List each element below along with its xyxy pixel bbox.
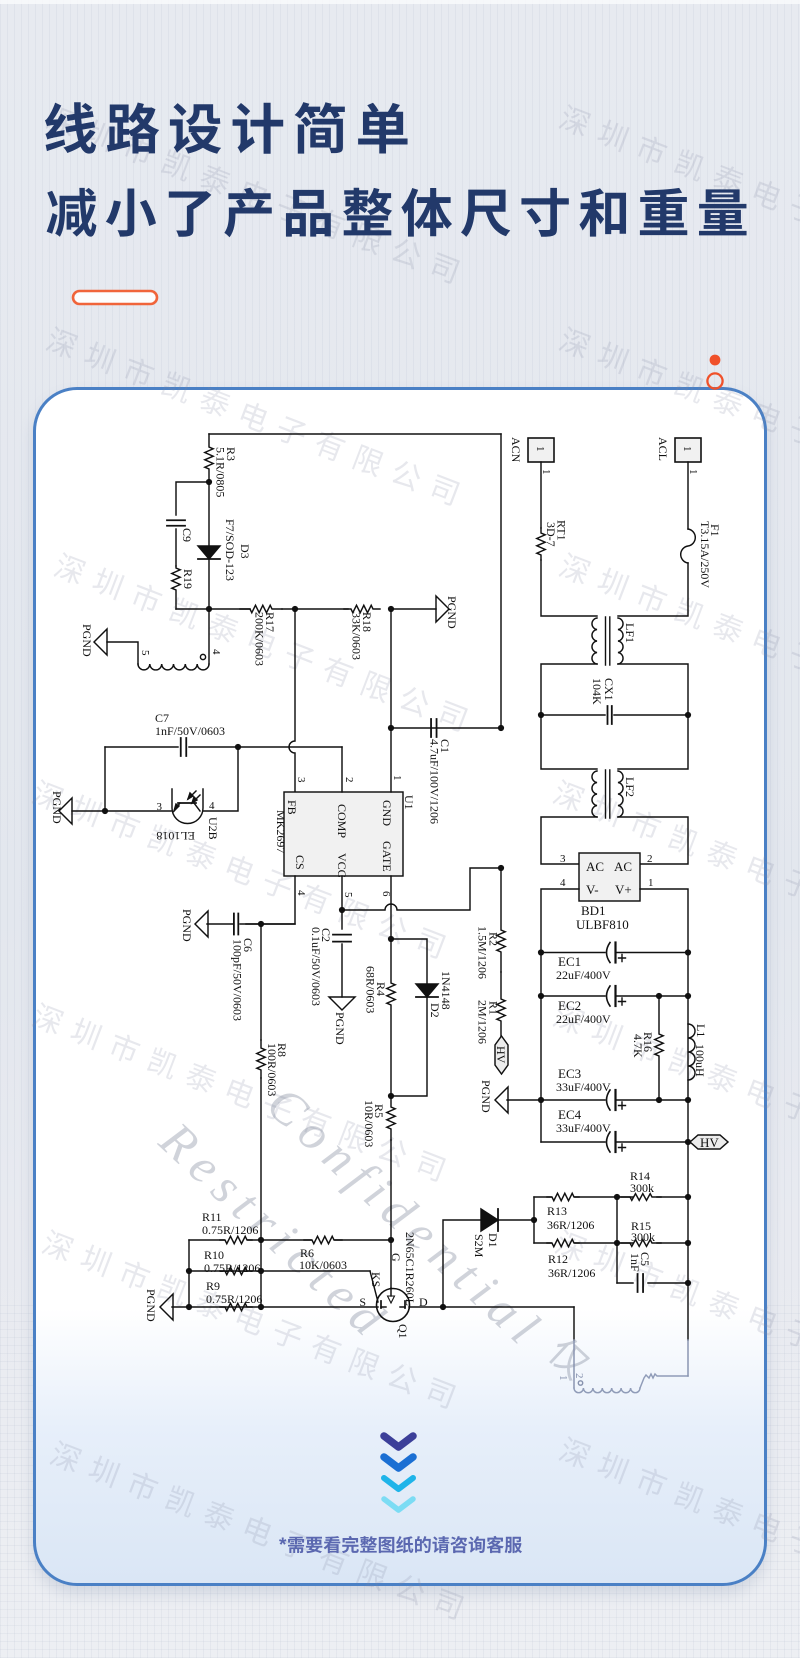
wire C7 left drop: [104, 747, 106, 811]
node EC3 right: [685, 1097, 691, 1103]
wire C5 rail: [617, 1282, 688, 1284]
node C5 right: [685, 1280, 691, 1286]
node D1 out: [531, 1217, 537, 1223]
svg-text:3D-7: 3D-7: [544, 522, 558, 547]
svg-text:LF2: LF2: [623, 777, 637, 797]
capacitor C7 label: [155, 711, 225, 738]
wire R17-R18: [282, 608, 348, 610]
wire VCC jump to HV divider: [342, 868, 501, 910]
wire PGND-EC3: [507, 1099, 541, 1101]
svg-text:CS: CS: [293, 855, 307, 870]
connector ACL: [656, 437, 701, 462]
wire T1 primary right: [640, 1374, 688, 1388]
wire snubber mid bus: [616, 1197, 618, 1283]
svg-text:1: 1: [648, 877, 654, 889]
svg-text:33K/0603: 33K/0603: [350, 612, 364, 660]
wire COMP pin2: [341, 747, 343, 792]
svg-text:V+: V+: [615, 882, 632, 897]
svg-text:1nF/50V/0603: 1nF/50V/0603: [155, 724, 225, 738]
svg-text:L1: L1: [694, 1024, 708, 1037]
T1 pin labels: [557, 1373, 585, 1385]
svg-text:GATE: GATE: [380, 841, 394, 872]
svg-text:2: 2: [647, 853, 653, 865]
wire LF2-BD1 pin2: [618, 817, 688, 865]
svg-text:10R/0603: 10R/0603: [362, 1100, 376, 1147]
resistor R14: [621, 1169, 661, 1200]
wire R8-R11 rail: [260, 1078, 262, 1240]
node opto left: [102, 808, 108, 814]
diode D2: [391, 971, 453, 1096]
U1 pin labels: [274, 795, 416, 878]
svg-text:104K: 104K: [590, 678, 604, 705]
inductor L1: [688, 1024, 708, 1080]
svg-text:V-: V-: [586, 882, 599, 897]
wire C1 rail: [391, 727, 501, 729]
node R11-R8: [258, 1237, 264, 1243]
node EC2 mid: [656, 993, 662, 999]
resistor R17: [240, 605, 282, 666]
svg-text:LF1: LF1: [623, 623, 637, 643]
wire D1-R13: [494, 1219, 534, 1221]
orange underline pill: [73, 291, 157, 304]
svg-text:G: G: [389, 1253, 403, 1262]
svg-text:4: 4: [209, 800, 215, 812]
node R14 right: [685, 1194, 691, 1200]
capacitor C2: [309, 910, 351, 1006]
resistor R19: [172, 566, 195, 609]
inductor LF1 right winding: [618, 618, 637, 664]
svg-text:EC1: EC1: [558, 954, 581, 969]
wire CX1-LF2 left: [541, 715, 597, 769]
capacitor EC3: [556, 1066, 626, 1110]
title line 2: [47, 188, 747, 238]
svg-text:R11: R11: [202, 1210, 222, 1224]
node R9 left: [186, 1304, 192, 1310]
node EC4 right: [685, 1139, 691, 1145]
svg-text:4: 4: [210, 649, 222, 655]
capacitor C5: [628, 1252, 652, 1292]
wire F1-LF1: [618, 563, 688, 616]
node R9 mid: [258, 1304, 264, 1310]
svg-text:4: 4: [295, 890, 307, 896]
node CX1 right: [685, 712, 691, 718]
wire drain rail: [409, 1306, 574, 1308]
svg-text:0.75R/1206: 0.75R/1206: [206, 1292, 262, 1306]
svg-text:D2: D2: [428, 1003, 442, 1018]
wire R8 drop: [260, 924, 262, 1040]
capacitor EC4: [556, 1107, 626, 1152]
capacitor EC2: [556, 986, 626, 1026]
ground PGND top: [436, 596, 459, 629]
wire D2 branch top: [391, 939, 427, 984]
wire main HV drop: [500, 434, 502, 728]
wire C6-PGND: [207, 923, 233, 925]
node EC1 left: [538, 949, 544, 955]
resistor R16: [631, 996, 663, 1100]
wire BD1 pin4: [541, 877, 579, 953]
ground PGND aux: [80, 624, 107, 657]
svg-text:1: 1: [687, 469, 699, 475]
svg-text:0.1uF/50V/0603: 0.1uF/50V/0603: [309, 927, 323, 1006]
svg-text:5: 5: [342, 892, 354, 898]
svg-text:PGND: PGND: [445, 596, 459, 629]
node EC1 right: [685, 949, 691, 955]
svg-text:36R/1206: 36R/1206: [547, 1218, 594, 1232]
resistor R15: [621, 1219, 661, 1246]
wire HV bus: [687, 996, 689, 1340]
svg-text:PGND: PGND: [180, 909, 194, 942]
svg-text:VCC: VCC: [335, 853, 349, 878]
svg-text:EC4: EC4: [558, 1107, 582, 1122]
wire EC1 rail: [541, 952, 688, 954]
resistor R9: [206, 1279, 262, 1311]
svg-text:D1: D1: [486, 1233, 500, 1248]
svg-text:68R/0603: 68R/0603: [364, 966, 378, 1013]
wire VCC pin5: [341, 876, 343, 910]
wire EC2 rail: [541, 995, 688, 997]
diode bridge BD1: [576, 853, 640, 932]
wire to C9: [176, 482, 209, 515]
svg-text:300k: 300k: [631, 1230, 655, 1244]
svg-text:33uF/400V: 33uF/400V: [556, 1121, 611, 1135]
node C1 left: [388, 725, 394, 731]
resistor R18: [344, 605, 380, 660]
wire EC3-EC4 left: [540, 1100, 542, 1142]
node R6-gate: [388, 1237, 394, 1243]
wire FB vertical with hop: [289, 609, 295, 792]
resistor R13: [547, 1193, 594, 1232]
capacitor C7: [181, 738, 187, 756]
fuse F1: [681, 521, 722, 588]
svg-text:ACL: ACL: [656, 437, 670, 461]
wire LF2-BD1 pin3: [541, 817, 597, 865]
node FB tap: [292, 606, 298, 612]
transformer T1 aux winding: [138, 649, 222, 670]
wire R10 rail: [189, 1270, 370, 1272]
svg-text:EC2: EC2: [558, 998, 581, 1013]
svg-text:R19: R19: [181, 569, 195, 589]
wire EC2-EC3 left: [540, 996, 542, 1100]
svg-text:KS: KS: [369, 1272, 383, 1287]
node EC2 left: [538, 993, 544, 999]
wire EC1-EC2 left: [540, 953, 542, 997]
svg-text:BD1: BD1: [581, 903, 606, 918]
svg-text:1nF: 1nF: [628, 1253, 642, 1272]
svg-text:2: 2: [343, 777, 355, 783]
diode D1: [472, 1209, 500, 1258]
svg-text:2N65C1R260L: 2N65C1R260L: [403, 1232, 417, 1306]
node EC3 mid: [656, 1097, 662, 1103]
node opto-C7: [235, 744, 241, 750]
wire GND pin1 stub: [390, 728, 392, 792]
svg-text:R9: R9: [206, 1279, 220, 1293]
circuit schematic: [50, 434, 728, 1393]
svg-text:PGND: PGND: [144, 1289, 158, 1322]
wire feedback rail: [176, 608, 250, 610]
wire D1 riser: [443, 1220, 481, 1307]
node R10 left: [186, 1268, 192, 1274]
wire aux-node: [208, 609, 210, 664]
wire C9-R19: [175, 529, 177, 566]
svg-text:ULBF810: ULBF810: [576, 917, 629, 932]
capacitor C9: [167, 520, 194, 542]
wire C7 rail: [105, 746, 342, 748]
svg-text:100R/0603: 100R/0603: [265, 1043, 279, 1096]
inductor LF1 left winding: [592, 618, 597, 664]
resistor R4: [364, 939, 396, 1096]
node HV divider tap: [498, 865, 504, 871]
node HV flag out: [690, 1135, 728, 1150]
ground PGND opto: [50, 791, 72, 824]
node aux top: [206, 606, 212, 612]
resistor R12: [547, 1239, 595, 1280]
svg-text:U2B: U2B: [206, 817, 220, 840]
svg-text:U1: U1: [402, 795, 416, 810]
svg-text:D3: D3: [238, 544, 252, 559]
wire sense mid bus: [260, 1240, 262, 1307]
wire R18-PGND: [391, 608, 436, 610]
ground PGND sense: [144, 1289, 173, 1322]
orange ring: [707, 373, 722, 388]
svg-text:AC: AC: [586, 859, 604, 874]
svg-text:F7/SOD-123: F7/SOD-123: [223, 519, 237, 581]
wire CS pin4: [246, 876, 295, 924]
svg-text:C9: C9: [180, 528, 194, 542]
svg-text:*: *: [279, 1535, 287, 1556]
svg-text:0.75R/1206: 0.75R/1206: [204, 1261, 260, 1275]
svg-text:22uF/400V: 22uF/400V: [556, 968, 611, 982]
node EC3 left: [538, 1097, 544, 1103]
wire ACL drop: [687, 462, 699, 529]
svg-text:0.75R/1206: 0.75R/1206: [202, 1223, 258, 1237]
down chevrons: [384, 1436, 413, 1447]
svg-text:1: 1: [534, 446, 546, 452]
wire top rail: [209, 433, 501, 435]
thermistor RT1: [537, 520, 569, 560]
svg-text:Q1: Q1: [396, 1324, 410, 1339]
svg-text:1.5M/1206: 1.5M/1206: [476, 926, 490, 979]
resistor R3: [205, 434, 238, 497]
wire R12 rail: [534, 1242, 688, 1244]
transistor Q1: [359, 1232, 428, 1339]
wire gate drop: [390, 1140, 392, 1288]
wire BD1 pin1: [640, 877, 688, 953]
capacitor C1: [428, 719, 453, 824]
svg-text:ACN: ACN: [509, 437, 523, 463]
svg-text:S: S: [359, 1295, 366, 1309]
svg-text:PGND: PGND: [333, 1012, 347, 1045]
ground PGND VCC: [329, 997, 355, 1045]
wire CX1 rail: [541, 714, 688, 716]
svg-text:R10: R10: [204, 1248, 224, 1262]
resistor R1: [476, 972, 506, 1044]
svg-text:3: 3: [560, 853, 566, 865]
wire GND pin1: [390, 609, 392, 728]
wire GATE pin6: [390, 876, 392, 939]
svg-text:AC: AC: [614, 859, 632, 874]
wire HV bus faded tail: [687, 1340, 689, 1376]
svg-text:100pF/50V/0603: 100pF/50V/0603: [231, 939, 245, 1021]
resistor R2: [476, 868, 506, 979]
node drain-D1: [440, 1304, 446, 1310]
svg-text:PGND: PGND: [50, 791, 64, 824]
svg-text:EC3: EC3: [558, 1066, 581, 1081]
node R4-D2 bottom: [388, 1093, 394, 1099]
node CS-R8: [258, 921, 264, 927]
node CX1 left: [538, 712, 544, 718]
wire snubber left bus: [533, 1197, 535, 1243]
svg-text:S2M: S2M: [472, 1234, 486, 1258]
svg-text:PGND: PGND: [479, 1080, 493, 1113]
wire LF1 left out: [541, 664, 597, 715]
capacitor C6: [231, 914, 256, 1022]
wire PGND-aux winding: [107, 642, 138, 664]
U1 pin numbers: [295, 775, 403, 898]
svg-text:4.7uF/100V/1206: 4.7uF/100V/1206: [428, 739, 442, 824]
node VCC: [339, 907, 345, 913]
ground PGND bulk: [479, 1080, 508, 1113]
wire CX1-LF2 right: [618, 715, 688, 769]
svg-text:5: 5: [139, 650, 151, 656]
svg-text:R12: R12: [548, 1252, 568, 1266]
wire KS diagonal: [369, 1271, 383, 1302]
svg-text:22uF/400V: 22uF/400V: [556, 1012, 611, 1026]
svg-text:3: 3: [295, 777, 307, 783]
connector ACN: [509, 437, 554, 463]
ground PGND CS: [180, 909, 208, 942]
diode D3: [198, 482, 252, 609]
svg-text:3: 3: [157, 801, 163, 813]
capacitor CX1: [590, 678, 616, 724]
svg-text:GND: GND: [380, 800, 394, 826]
optocoupler U2B: [156, 789, 220, 843]
wire PGND-opto: [72, 810, 171, 812]
wire sense left bus: [188, 1240, 190, 1307]
svg-text:COMP: COMP: [335, 804, 349, 838]
svg-text:T3.15A/250V: T3.15A/250V: [698, 521, 712, 588]
IC U1 MK2697 body: [284, 792, 403, 876]
wire R13 rail: [534, 1196, 688, 1198]
transformer T1 primary winding: [574, 1388, 640, 1393]
svg-text:2: 2: [573, 1373, 585, 1379]
node R12-R15: [614, 1240, 620, 1246]
svg-text:MK2697: MK2697: [274, 810, 288, 853]
svg-text:4: 4: [560, 877, 566, 889]
wire CS junction: [240, 923, 295, 925]
svg-text:10K/0603: 10K/0603: [299, 1258, 347, 1272]
svg-text:300k: 300k: [630, 1181, 654, 1195]
resistor R5: [362, 1096, 395, 1147]
node R13-R14: [614, 1194, 620, 1200]
svg-text:6: 6: [380, 891, 392, 897]
orange dot: [710, 355, 721, 366]
inductor LF2 right winding: [618, 771, 637, 817]
svg-text:36R/1206: 36R/1206: [548, 1266, 595, 1280]
wire R9 rail: [172, 1306, 378, 1308]
node GND tap: [388, 606, 394, 612]
svg-text:R13: R13: [547, 1204, 567, 1218]
svg-text:EL1018: EL1018: [156, 829, 195, 843]
wire C2-PGND: [341, 944, 343, 997]
resistor R11: [202, 1210, 258, 1244]
wire T1 primary left drop: [573, 1307, 575, 1388]
node HV flag: [494, 1036, 508, 1074]
wire EC4 rail: [541, 1141, 688, 1143]
node R3-C9-D3: [206, 479, 212, 485]
resistor R10: [204, 1248, 260, 1275]
node gate-R4: [388, 936, 394, 942]
svg-text:200K/0603: 200K/0603: [253, 612, 267, 666]
wire LF1 right out: [618, 664, 688, 715]
inductor LF2 core: [606, 770, 610, 818]
wire ACN drop: [540, 462, 552, 528]
wire R11 rail: [189, 1239, 391, 1241]
wire EC1-EC2 right: [687, 953, 689, 997]
resistor R8: [257, 1040, 289, 1096]
svg-text:PGND: PGND: [80, 624, 94, 657]
svg-text:100uH: 100uH: [693, 1044, 707, 1077]
node EC2 right: [685, 993, 691, 999]
node R10 mid: [258, 1268, 264, 1274]
node R15 right: [685, 1240, 691, 1246]
node C1 right: [498, 725, 504, 731]
wire RT1-LF1: [541, 560, 597, 616]
inductor LF2 left winding: [592, 771, 597, 817]
schematic card panel: [33, 387, 767, 1586]
wire EC3 rail: [541, 1099, 688, 1101]
svg-text:1: 1: [391, 775, 403, 781]
svg-text:5.1R/0805: 5.1R/0805: [214, 447, 228, 497]
svg-text:1: 1: [681, 446, 693, 452]
svg-text:1: 1: [540, 469, 552, 475]
svg-text:33uF/400V: 33uF/400V: [556, 1080, 611, 1094]
svg-text:2M/1206: 2M/1206: [476, 1000, 490, 1044]
svg-text:1: 1: [557, 1375, 569, 1381]
inductor LF1 core: [606, 617, 610, 665]
svg-text:4.7K: 4.7K: [631, 1034, 645, 1058]
svg-text:HV: HV: [494, 1046, 508, 1064]
wire opto-C7 riser: [203, 747, 238, 811]
svg-text:HV: HV: [700, 1135, 719, 1150]
svg-text:C7: C7: [155, 711, 169, 725]
title line 1: [45, 102, 408, 154]
resistor R6: [299, 1236, 347, 1272]
capacitor EC1: [556, 943, 626, 983]
